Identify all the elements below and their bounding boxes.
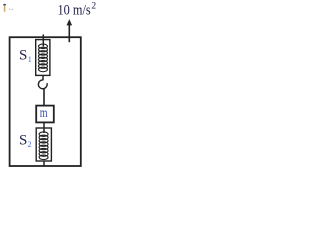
wire: spring S1 stem (42, 76, 44, 81)
label 10 m/s^2 (58, 1, 97, 18)
spring S2 casing (36, 128, 51, 161)
label S2 (19, 133, 32, 150)
acceleration arrow (68, 25, 70, 43)
wire: hook to mass (43, 89, 45, 106)
hook loop below S1 (38, 80, 47, 89)
mass m box (36, 106, 54, 123)
wire: top edge to spring S1 (42, 34, 44, 46)
svg-text:2: 2 (28, 140, 32, 149)
svg-text:S: S (19, 48, 27, 64)
svg-text:S: S (19, 133, 27, 149)
arrowhead (67, 19, 73, 25)
cropped text fragment top-left (3, 4, 13, 12)
spring S2 coil (39, 132, 48, 160)
container box (10, 37, 81, 166)
wire: mass to spring S2 (43, 122, 45, 133)
svg-text:10 m/s: 10 m/s (58, 3, 91, 19)
label S1 (19, 48, 32, 65)
svg-text:m: m (40, 105, 48, 120)
spring S1 coil (39, 44, 48, 72)
spring S1 casing (36, 40, 50, 76)
svg-text:2: 2 (91, 1, 96, 11)
svg-text:1: 1 (28, 55, 32, 64)
wire: spring S2 to box bottom (43, 161, 45, 166)
